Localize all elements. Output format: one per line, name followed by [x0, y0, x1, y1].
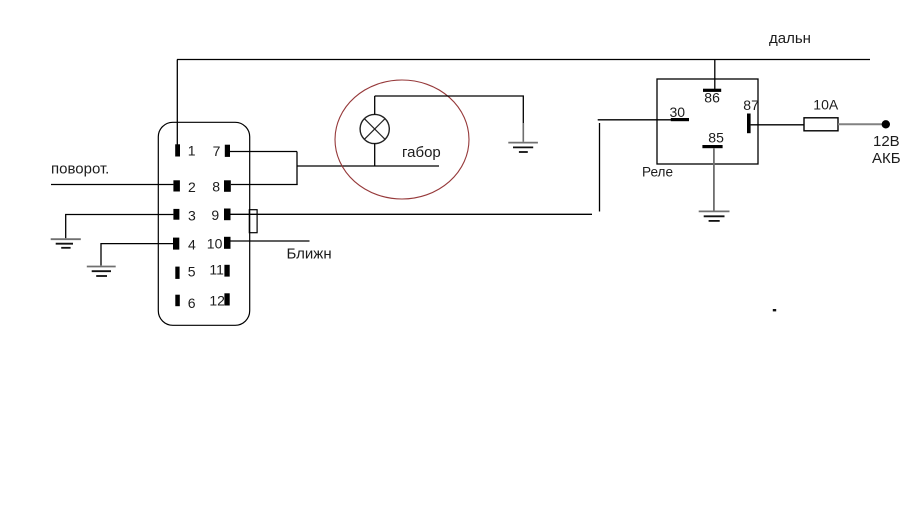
svg-text:Реле: Реле	[642, 164, 673, 180]
ground 4 (relay 85)	[699, 211, 730, 221]
svg-text:8: 8	[212, 179, 220, 195]
wire: pin 7 to junction	[230, 151, 297, 153]
wire: pin 87 to fuse	[751, 124, 804, 126]
connector latch small rectangle at pin 9	[249, 210, 257, 233]
svg-text:11: 11	[209, 262, 224, 278]
pin 5 contact	[175, 267, 179, 279]
svg-text:2: 2	[188, 179, 196, 195]
svg-text:дальн: дальн	[769, 30, 811, 47]
svg-text:6: 6	[188, 295, 196, 311]
wire: vertical from top net down to connector pin 1	[176, 60, 178, 147]
relay pin 86 terminal bar	[703, 89, 721, 92]
svg-text:габор: габор	[402, 144, 441, 161]
svg-text:1: 1	[188, 143, 196, 159]
wire: pin 8 to junction	[231, 184, 298, 186]
relay pin 30 terminal bar	[671, 118, 689, 121]
wire: lamp top lead	[374, 96, 376, 115]
wire: junction vertical pin7-pin8	[296, 152, 298, 185]
wire: vertical riser to relay pin 30	[599, 123, 601, 212]
wire: into relay pin 30	[598, 119, 671, 121]
fuse F1 10A	[804, 118, 838, 131]
svg-text:7: 7	[213, 143, 221, 159]
ground 3 (lamp)	[508, 143, 538, 152]
pin 9 contact	[224, 209, 231, 221]
lamp HL1 габор (circle with X)	[360, 114, 389, 143]
wire: gray segment to ground 3	[522, 123, 524, 142]
wire: lamp top to ground 3	[375, 96, 524, 124]
battery terminal dot	[882, 120, 890, 128]
wire: pin 3 to ground 1	[66, 215, 174, 239]
wire: поворот to pin 2	[51, 184, 173, 186]
wire: pin 9 long horizontal to relay branch	[231, 213, 593, 215]
svg-text:10А: 10А	[813, 97, 839, 113]
pin 6 contact	[175, 295, 180, 307]
relay K1 box	[657, 79, 758, 164]
svg-text:АКБ: АКБ	[872, 150, 901, 167]
pin 4 contact	[173, 238, 179, 250]
svg-text:30: 30	[670, 104, 686, 120]
svg-text:9: 9	[211, 207, 219, 223]
svg-text:Ближн: Ближн	[287, 246, 332, 263]
pin 7 contact	[225, 145, 230, 157]
wire: fuse to battery terminal (gray)	[838, 123, 882, 125]
svg-text:4: 4	[188, 237, 196, 253]
pin 10 contact	[224, 237, 231, 249]
svg-text:поворот.: поворот.	[51, 161, 109, 178]
connector X1 12-pin outline	[158, 122, 249, 325]
wire: lamp bottom lead	[374, 143, 376, 166]
wire: pin 4 to ground 2	[101, 244, 173, 266]
red highlight circle around lamp	[335, 80, 469, 199]
svg-text:10: 10	[207, 236, 223, 252]
pin 11 contact	[224, 265, 229, 277]
stray mark (dot)	[773, 309, 776, 311]
wire: junction to lamp bottom lead	[297, 165, 439, 167]
svg-text:85: 85	[708, 129, 724, 145]
pin 8 contact	[224, 180, 231, 192]
wire: pin 10 Ближн stub	[231, 240, 310, 242]
wire: pin 85 gray to ground 4	[713, 148, 715, 211]
ground 1 (pin 3)	[51, 239, 81, 248]
pin 2 contact	[173, 180, 180, 191]
wire: дальн net top horizontal	[177, 59, 870, 61]
pin 12 contact	[224, 293, 229, 305]
svg-text:3: 3	[188, 208, 196, 224]
wire: top net down to relay pin 86	[714, 60, 716, 90]
svg-text:5: 5	[188, 264, 196, 280]
svg-text:12: 12	[209, 292, 225, 308]
relay pin 85 terminal bar	[702, 145, 722, 148]
svg-text:87: 87	[743, 97, 759, 113]
svg-text:86: 86	[704, 89, 720, 105]
svg-text:12В: 12В	[873, 133, 900, 150]
pin 3 contact	[173, 209, 179, 220]
relay pin 87 terminal bar	[747, 114, 751, 134]
pin 1 contact	[175, 144, 180, 156]
ground 2 (pin 4)	[87, 267, 116, 277]
